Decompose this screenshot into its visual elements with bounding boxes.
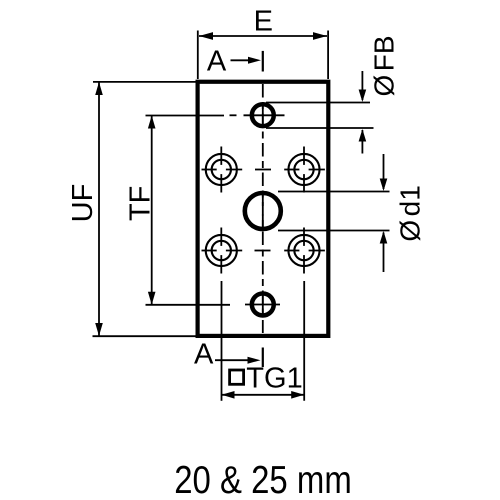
section mark A top — [207, 46, 263, 78]
bottom hole crosshair — [245, 304, 280, 306]
top hole crosshair — [244, 114, 285, 116]
centerline (vertical, dashed) — [262, 84, 264, 333]
counterbore hole top-left — [202, 147, 243, 193]
dimension TF — [124, 116, 230, 305]
centerline dash at lower counterbore row — [255, 250, 271, 252]
counterbore hole bottom-left — [202, 228, 243, 274]
svg-text:A: A — [194, 339, 214, 371]
svg-text:TG1: TG1 — [246, 363, 302, 395]
dimension E — [198, 5, 328, 79]
svg-text:20 & 25 mm: 20 & 25 mm — [174, 459, 352, 500]
section mark A bottom — [194, 339, 263, 371]
bottom hole — [252, 294, 274, 316]
plate outline — [198, 82, 329, 336]
centerline segments through center hole — [262, 194, 264, 206]
dimension TG1 — [222, 281, 305, 401]
svg-text:UF: UF — [67, 184, 99, 223]
centerline segment through top hole — [262, 104, 264, 129]
centerline segment through bottom hole — [262, 294, 264, 317]
svg-text:A: A — [207, 46, 227, 78]
dimension d1 (arrows) — [278, 154, 426, 272]
center hole d1 — [245, 193, 281, 229]
svg-text:Ød1: Ød1 — [395, 185, 426, 241]
top hole FB — [252, 104, 274, 126]
dimension FB (arrows) — [266, 35, 400, 153]
counterbore hole top-right — [284, 147, 325, 193]
svg-text:E: E — [254, 5, 273, 37]
centerline dash at upper counterbore row — [255, 169, 271, 171]
svg-text:TF: TF — [124, 186, 156, 221]
svg-text:ØFB: ØFB — [369, 35, 400, 96]
dimension UF — [67, 82, 196, 336]
counterbore hole bottom-right — [284, 228, 325, 274]
